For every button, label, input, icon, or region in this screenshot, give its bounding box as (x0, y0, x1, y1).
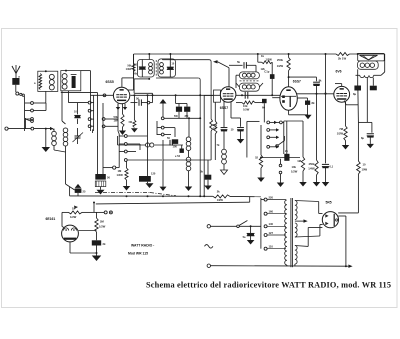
svg-text:1/4W: 1/4W (308, 167, 315, 171)
svg-text:10k: 10k (292, 165, 297, 169)
svg-text:1/4W: 1/4W (117, 173, 124, 177)
svg-text:6E161: 6E161 (46, 217, 56, 221)
svg-text:2k: 2k (103, 242, 106, 246)
svg-text:6V6: 6V6 (336, 69, 342, 73)
svg-text:1/2W: 1/2W (291, 170, 298, 174)
svg-text:8μ: 8μ (361, 136, 364, 140)
svg-text:WATT RADIO -: WATT RADIO - (131, 244, 154, 248)
svg-text:8μ: 8μ (353, 92, 356, 96)
svg-text:1k: 1k (261, 54, 264, 58)
svg-text:160: 160 (269, 210, 274, 214)
svg-text:1/2W: 1/2W (217, 198, 224, 202)
svg-text:60: 60 (262, 106, 265, 110)
svg-text:0.5W: 0.5W (243, 108, 250, 112)
svg-text:1/2W: 1/2W (266, 58, 273, 62)
svg-text:2W: 2W (213, 128, 217, 131)
svg-text:1/2W: 1/2W (337, 132, 344, 136)
svg-text:110: 110 (269, 245, 274, 249)
svg-text:0,1: 0,1 (330, 165, 334, 169)
svg-text:50k: 50k (133, 73, 138, 76)
svg-text:50: 50 (136, 97, 139, 101)
svg-text:5R5: 5R5 (326, 200, 332, 204)
svg-text:1k: 1k (72, 207, 75, 211)
svg-text:450k: 450k (309, 162, 315, 166)
svg-text:100: 100 (173, 145, 178, 149)
svg-text:10W: 10W (362, 168, 368, 172)
svg-text:140: 140 (269, 222, 274, 226)
svg-text:2k: 2k (217, 189, 220, 193)
svg-text:e 52: e 52 (175, 154, 181, 158)
svg-text:1/2W: 1/2W (99, 225, 106, 229)
svg-text:1/2W: 1/2W (277, 64, 284, 68)
svg-text:10: 10 (363, 163, 366, 167)
svg-text:6SS7: 6SS7 (293, 80, 301, 84)
svg-text:Schema elettrico del radiorice: Schema elettrico del radioricevitore WAT… (146, 281, 391, 290)
svg-text:Mod WR 115: Mod WR 115 (128, 252, 148, 256)
svg-text:1/2W: 1/2W (70, 215, 77, 219)
svg-text:1/2W: 1/2W (126, 68, 132, 71)
svg-text:10k: 10k (243, 104, 248, 108)
svg-text:120: 120 (151, 172, 156, 176)
svg-text:220: 220 (269, 195, 274, 199)
svg-text:1W: 1W (114, 119, 118, 123)
svg-text:250k: 250k (277, 58, 283, 62)
svg-text:6SS5: 6SS5 (106, 80, 114, 84)
svg-text:8k: 8k (312, 101, 315, 105)
svg-text:127: 127 (269, 231, 274, 235)
svg-text:2k 1W: 2k 1W (338, 57, 346, 61)
svg-text:C1p: C1p (264, 70, 269, 74)
svg-text:5k: 5k (237, 60, 240, 64)
